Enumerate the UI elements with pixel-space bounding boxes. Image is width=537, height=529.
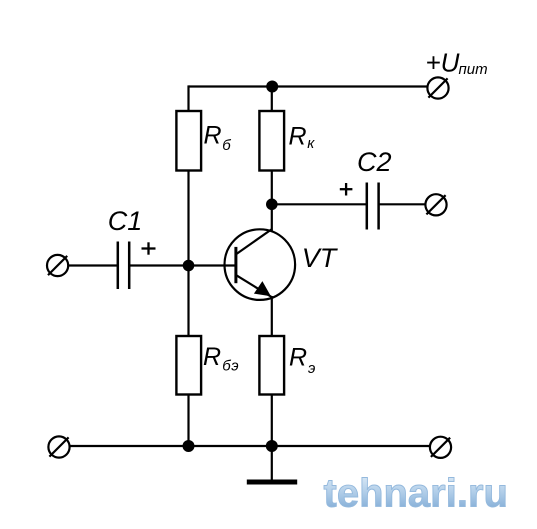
- label: + polarity of C2: [340, 183, 353, 196]
- terminal: bottom left: [48, 436, 69, 457]
- svg-text:C2: C2: [357, 147, 392, 177]
- resistor Rбэ: [176, 336, 201, 395]
- terminal: bottom right: [430, 437, 451, 458]
- svg-text:C1: C1: [108, 206, 143, 236]
- wire: top supply rail: [189, 85, 428, 87]
- wire: Rэ to bottom rail: [271, 395, 273, 447]
- wire: bottom rail: [70, 445, 430, 447]
- svg-text:+U: +U: [426, 48, 460, 78]
- node: top rail / Rк junction: [266, 81, 278, 93]
- emitter arrow: [254, 281, 271, 296]
- capacitor C2: [367, 183, 379, 230]
- label Rэ: [289, 344, 315, 378]
- label Rк: [289, 123, 316, 153]
- capacitor C1: [118, 242, 129, 290]
- node: base junction: [183, 260, 195, 272]
- wire: input to C1: [68, 264, 118, 266]
- node: bottom rail / ground junction: [266, 440, 278, 452]
- svg-text:VT: VT: [302, 243, 339, 273]
- terminal: +U supply: [427, 77, 448, 98]
- svg-text:R: R: [289, 344, 307, 372]
- wire: C2 to output terminal: [379, 203, 426, 205]
- label: +Uпит: [426, 48, 488, 78]
- transistor VT: [224, 229, 295, 300]
- wire: drop from top rail to Rк: [271, 87, 273, 112]
- label: + polarity of C1: [142, 242, 156, 254]
- wire: emitter vertical to Rэ: [271, 296, 273, 336]
- label Rб: [204, 122, 232, 155]
- wire: left rail from Rб down to Rбэ: [187, 171, 189, 337]
- wire: drop from top rail to Rб: [187, 85, 189, 111]
- ground: [247, 446, 297, 482]
- emitter lead: [236, 275, 271, 297]
- terminal: input: [47, 255, 68, 276]
- resistor Rк: [259, 111, 284, 171]
- svg-text:б: б: [222, 137, 231, 154]
- base bar: [234, 247, 237, 283]
- svg-text:бэ: бэ: [222, 357, 239, 374]
- transistor body circle: [224, 229, 295, 300]
- resistor Rэ: [259, 336, 284, 395]
- wire: C2 branch left segment: [272, 203, 367, 205]
- wire: collector vertical (Rк to transistor): [271, 171, 273, 232]
- wire: C1 to base node and on to transistor base: [129, 264, 235, 266]
- resistor Rб: [176, 111, 201, 171]
- svg-text:пит: пит: [459, 61, 488, 78]
- collector lead: [236, 229, 272, 254]
- svg-text:R: R: [289, 123, 307, 151]
- wire: Rбэ to bottom rail: [187, 395, 189, 447]
- label Rбэ: [203, 343, 239, 374]
- node: collector / C2 tap: [266, 199, 278, 211]
- svg-text:к: к: [307, 135, 315, 152]
- svg-text:R: R: [204, 122, 222, 150]
- svg-text:R: R: [203, 343, 221, 371]
- svg-text:э: э: [308, 360, 315, 377]
- svg-text:tehnari.ru: tehnari.ru: [324, 472, 508, 516]
- terminal: output: [425, 194, 446, 215]
- node: bottom rail / Rбэ junction: [183, 440, 195, 452]
